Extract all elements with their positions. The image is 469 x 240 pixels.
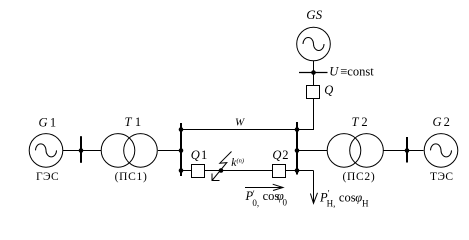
svg-text:(ПС1): (ПС1) xyxy=(115,171,148,183)
svg-text:Q1: Q1 xyxy=(191,148,208,162)
svg-text:W: W xyxy=(235,117,245,129)
svg-text:G1: G1 xyxy=(39,116,57,130)
svg-text:Q: Q xyxy=(324,83,333,97)
svg-text:ТЭС: ТЭС xyxy=(430,171,454,183)
svg-text:U≡const: U≡const xyxy=(329,64,374,78)
svg-text:Q2: Q2 xyxy=(272,148,288,162)
svg-text:(n): (n) xyxy=(237,158,245,165)
svg-text:(ПС2): (ПС2) xyxy=(343,171,376,183)
svg-text:GS: GS xyxy=(306,7,322,22)
svg-text:ГЭС: ГЭС xyxy=(36,171,59,183)
svg-text:G2: G2 xyxy=(433,115,450,129)
